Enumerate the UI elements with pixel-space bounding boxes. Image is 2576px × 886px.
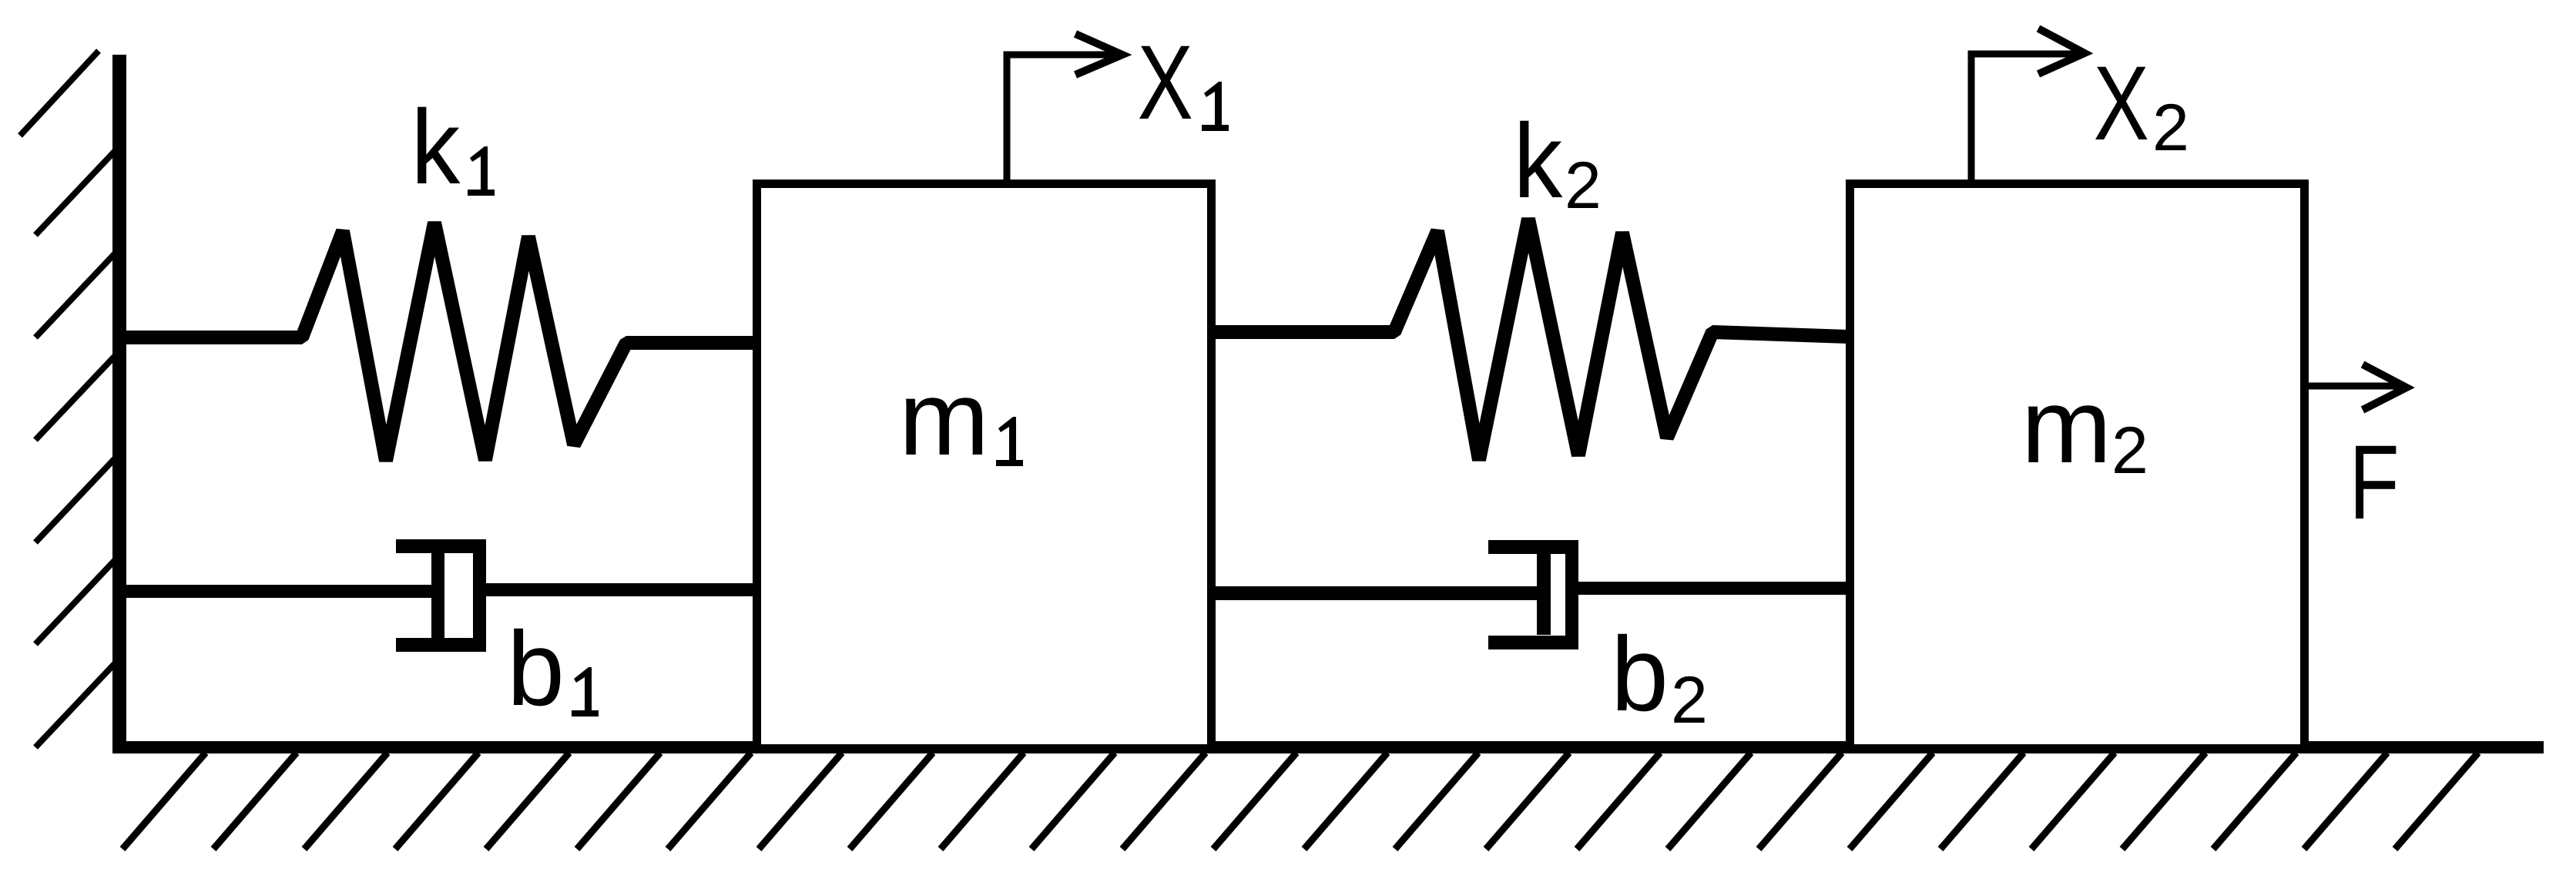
svg-text:2: 2 [2111, 414, 2148, 488]
svg-text:F: F [2349, 424, 2399, 542]
label k2 [1514, 102, 1602, 223]
svg-text:2: 2 [1671, 663, 1708, 737]
label X2 [2094, 45, 2189, 165]
label X1 [1138, 24, 1229, 142]
arrow F [2309, 364, 2407, 410]
arrow X2 [1971, 29, 2085, 180]
svg-text:k: k [1514, 102, 1564, 220]
svg-text:2: 2 [2152, 91, 2189, 165]
svg-text:k: k [411, 89, 461, 206]
damper b2 [1207, 540, 1854, 649]
svg-text:m: m [2021, 367, 2112, 485]
mass m2 [1850, 184, 2305, 749]
wall hatching [20, 51, 117, 747]
svg-text:b: b [507, 609, 565, 728]
ground [112, 741, 2544, 753]
svg-text:X: X [2094, 45, 2149, 163]
svg-text:2: 2 [1565, 149, 1602, 223]
wall [112, 55, 126, 753]
svg-text:m: m [899, 360, 990, 478]
arrow X1 [1007, 34, 1122, 180]
label m1 [899, 360, 1023, 478]
svg-text:b: b [1611, 615, 1669, 733]
label m2 [2021, 367, 2148, 488]
label b1 [507, 609, 599, 728]
ground hatching [122, 753, 2478, 849]
spring k1 [123, 223, 755, 461]
svg-text:X: X [1138, 24, 1193, 142]
mass m1 [757, 184, 1212, 749]
spring k2 [1213, 219, 1848, 460]
label b2 [1611, 615, 1708, 737]
label F [2349, 424, 2399, 542]
damper b1 [119, 539, 761, 652]
label k1 [411, 89, 495, 206]
